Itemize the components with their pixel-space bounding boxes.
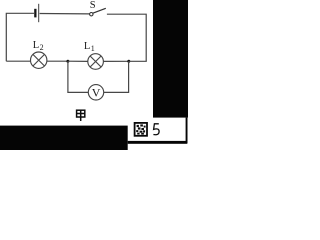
switch S lever (open) [93,8,106,13]
wire: node B to right side [129,60,147,62]
lamp L1 [88,54,104,70]
wire: switch to top-right corner, down right side [107,14,146,61]
scan black band bottom [0,126,128,150]
wire: top-left + left vertical [6,13,34,61]
switch S pivot [90,13,93,16]
node A junction dot [66,60,69,63]
caption 甲 (jia) drawn glyph [77,110,85,121]
caption 图 (tu) drawn glyph [135,123,147,136]
battery B1 short negative plate [34,9,36,18]
svg-text:V: V [92,86,101,100]
caption digit 5 [153,124,159,135]
svg-text:L: L [84,41,90,52]
wire: battery to switch pivot [40,13,90,15]
wire: node A to lamp L1 [68,60,88,62]
node B junction dot [127,60,130,63]
scan black stripe right [153,0,188,118]
svg-text:2: 2 [40,43,44,52]
svg-text:1: 1 [91,44,95,53]
wire: node A down and across to voltmeter [68,61,89,92]
lamp L2 [31,52,47,68]
svg-text:S: S [90,0,96,11]
wire: lamp L1 to node B [104,60,129,62]
wire: voltmeter to node B riser [104,61,129,92]
wire: L2 to node A [47,60,68,62]
voltmeter V [88,85,103,100]
figure label box bottom border [128,141,188,144]
figure label box right border [186,118,188,144]
battery B1 long positive plate [38,4,39,22]
wire: left to lamp L2 [6,60,30,62]
svg-text:L: L [33,40,39,51]
